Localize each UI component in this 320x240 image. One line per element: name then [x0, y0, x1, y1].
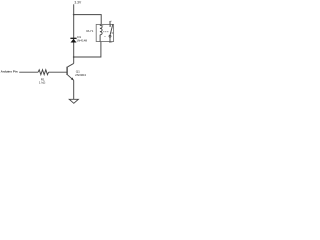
svg-text:2N3904: 2N3904	[75, 73, 86, 77]
svg-text:1N4148: 1N4148	[76, 39, 87, 43]
svg-text:1 kΩ: 1 kΩ	[39, 81, 46, 85]
svg-text:RLY1: RLY1	[86, 29, 93, 33]
svg-text:3.3V: 3.3V	[74, 1, 82, 5]
svg-text:Arduino Pin: Arduino Pin	[1, 70, 18, 74]
